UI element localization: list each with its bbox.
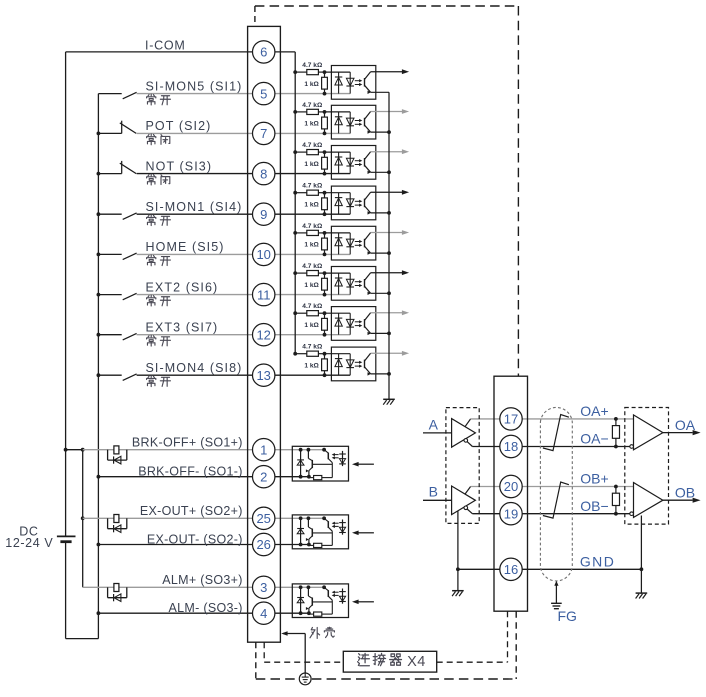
optocoupler U9 box xyxy=(331,186,375,220)
receiver side ground drop xyxy=(640,516,642,594)
pin 25 xyxy=(253,507,275,529)
pin 11 xyxy=(253,283,275,305)
wire OB+ pin20 to receiver xyxy=(522,486,633,488)
opto light arrows xyxy=(355,120,361,122)
switch EXT3 (SI7) stub xyxy=(98,334,121,336)
wire battery - to minus bus xyxy=(66,638,99,640)
switch SI-MON5 (SI1) stub xyxy=(98,93,121,95)
wire case (waike) to earth xyxy=(283,633,305,635)
svg-text:6: 6 xyxy=(260,45,267,60)
svg-text:4.7 kΩ: 4.7 kΩ xyxy=(302,263,323,270)
svg-text:1 kΩ: 1 kΩ xyxy=(304,81,319,88)
signal output arrow pin 13 xyxy=(371,352,403,354)
I-COM internal bus vertical xyxy=(294,52,296,354)
switch POT (SI2) NC contact bar xyxy=(121,121,123,134)
optocoupler U7 box xyxy=(331,105,375,139)
switch SI-MON1 (SI4) NO blade xyxy=(123,213,137,220)
label 常闭 xyxy=(147,174,156,185)
wire BRK-OFF- (SO1-) pin 2 to minus bus xyxy=(98,476,309,478)
pin 12 xyxy=(253,324,275,346)
node + bus corner xyxy=(81,448,85,452)
wire OA+ pin17 to receiver xyxy=(522,418,633,420)
opto phototransistor pin 5 xyxy=(364,78,366,87)
dashed leader left column to label xyxy=(263,642,265,662)
flyback diode at BRK-OFF+ (SO1+) xyxy=(113,456,115,463)
transistor Q2 (darlington output) xyxy=(324,518,328,521)
transistor Q1 (darlington input) xyxy=(307,587,309,596)
wire I-COM from battery + to pin 6 xyxy=(66,51,253,53)
battery - lead xyxy=(65,542,67,639)
twist symbol OA pair xyxy=(543,415,569,451)
ground (driver side) xyxy=(452,590,464,592)
line receiver OB triangle xyxy=(634,483,663,518)
svg-text:SI-MON4 (SI8): SI-MON4 (SI8) xyxy=(146,361,243,375)
opto LED branch 1 xyxy=(338,354,340,376)
opto emitter xyxy=(365,206,371,213)
wire OA- pin18 to receiver xyxy=(522,446,630,448)
shielded cable capsule xyxy=(540,407,572,580)
output optocoupler SO block pins 1/2 xyxy=(292,446,348,481)
node switch bus junction xyxy=(97,333,101,337)
svg-text:9: 9 xyxy=(260,207,267,222)
resistor 4.7k (pin 13 channel) xyxy=(295,353,307,355)
opto LED branch 1 xyxy=(338,193,340,215)
node switch bus junction xyxy=(97,212,101,216)
opto LED branch 2 xyxy=(349,233,351,255)
svg-text:SI-MON1 (SI4): SI-MON1 (SI4) xyxy=(146,200,243,214)
switch common / minus bus vertical xyxy=(97,94,99,639)
resistor 1k (pin 10 channel) xyxy=(324,233,326,238)
svg-text:POT (SI2): POT (SI2) xyxy=(146,119,212,133)
wire EXT2 (SI6) to pin 11 and optocoupler xyxy=(137,294,351,296)
switch POT (SI2) NC blade xyxy=(120,123,136,133)
switch EXT2 (SI6) NO blade xyxy=(123,293,137,300)
node divider bottom pin 12 xyxy=(323,333,327,337)
dashed leader label to right column xyxy=(437,661,508,663)
node bus branch SI9 xyxy=(293,191,297,195)
node emitter chain junction xyxy=(387,291,391,295)
resistor 1k (pin 13 channel) xyxy=(324,354,326,359)
protection diode branch xyxy=(300,518,302,544)
opto input top rail xyxy=(325,151,351,153)
Q1 base lead xyxy=(312,532,332,534)
line driver A triangle xyxy=(452,419,476,448)
node + bus EX-OUT branch xyxy=(81,516,85,520)
signal output arrow pin 8 xyxy=(371,151,403,153)
node divider bottom pin 13 xyxy=(323,373,327,377)
svg-text:EX-OUT+ (SO2+): EX-OUT+ (SO2+) xyxy=(140,504,243,518)
svg-text:BRK-OFF- (SO1-): BRK-OFF- (SO1-) xyxy=(138,465,243,479)
line driver B input wire xyxy=(423,499,452,501)
node emitter chain junction xyxy=(387,332,391,336)
switch SI-MON1 (SI4) stub xyxy=(98,213,121,215)
svg-text:11: 11 xyxy=(257,287,271,302)
wire EX-OUT- (SO2-) pin 26 to minus bus xyxy=(98,544,309,546)
node term resistor bottom xyxy=(614,512,618,516)
opto LED branch 1 xyxy=(338,273,340,295)
node divider top pin 12 xyxy=(323,311,327,315)
switch POT (SI2) stub xyxy=(98,132,121,134)
node minus bus junction xyxy=(97,611,101,615)
twist symbol OB pair xyxy=(543,482,569,518)
svg-text:SI-MON5 (SI1): SI-MON5 (SI1) xyxy=(146,79,243,93)
node divider top pin 9 xyxy=(323,191,327,195)
Q1 base lead xyxy=(312,601,332,603)
svg-text:13: 13 xyxy=(256,368,270,383)
node emitter chain junction xyxy=(387,170,391,174)
pin 26 xyxy=(253,533,275,555)
opto emitter xyxy=(365,286,371,293)
transistor Q2 (darlington output) xyxy=(324,587,328,590)
line driver B triangle xyxy=(452,486,476,515)
opto LED (output block) xyxy=(342,589,344,604)
node bus branch SI11 xyxy=(293,271,297,275)
opto light arrows xyxy=(355,361,361,363)
optocoupler U12 box xyxy=(331,307,375,341)
emitter chain to ground xyxy=(388,92,390,399)
wire NOT (SI3) to pin 8 and optocoupler xyxy=(137,173,351,175)
pin 2 xyxy=(253,466,275,488)
transistor Q1 (darlington input) xyxy=(307,450,309,459)
resistor 1k (pin 9 channel) xyxy=(324,193,326,198)
node term resistor bottom xyxy=(614,445,618,449)
switch HOME (SI5) NO blade xyxy=(123,253,137,260)
opto light arrows xyxy=(355,241,361,243)
switch SI-MON4 (SI8) stub xyxy=(98,374,121,376)
node divider bottom pin 9 xyxy=(323,212,327,216)
opto LED branch 2 xyxy=(349,313,351,335)
opto emitter xyxy=(365,367,371,374)
label 常开 xyxy=(147,215,156,226)
svg-text:OA−: OA− xyxy=(580,430,608,446)
line driver A input wire xyxy=(423,432,452,434)
cable shield to FG xyxy=(554,581,558,586)
flyback diode at EX-OUT+ (SO2+) xyxy=(113,525,115,532)
node bus branch SI7 xyxy=(293,110,297,114)
wire OB- pin19 to receiver xyxy=(522,513,630,515)
node switch bus junction xyxy=(97,132,101,136)
opto phototransistor pin 10 xyxy=(364,239,366,248)
node minus bus junction xyxy=(97,475,101,479)
svg-text:12-24 V: 12-24 V xyxy=(5,536,53,550)
opto light arrows xyxy=(355,200,361,202)
svg-text:EXT2 (SI6): EXT2 (SI6) xyxy=(146,280,219,294)
resistor 4.7k (pin 5 channel) xyxy=(295,71,307,73)
svg-text:4.7 kΩ: 4.7 kΩ xyxy=(302,303,323,310)
opto phototransistor pin 11 xyxy=(364,279,366,288)
pin 5 xyxy=(253,82,275,104)
svg-text:4.7 kΩ: 4.7 kΩ xyxy=(302,142,323,149)
servo-driver dashed border left stub to connector xyxy=(254,6,256,26)
node divider bottom pin 10 xyxy=(323,253,327,257)
resistor 1k (pin 12 channel) xyxy=(324,313,326,318)
wire BRK-OFF+ (SO1+) pin 1 from + bus xyxy=(83,449,324,451)
opto LED branch 1 xyxy=(338,313,340,335)
opto light arrows xyxy=(355,281,361,283)
switch SI-MON4 (SI8) NO blade xyxy=(123,374,137,381)
driver B inverting output bubble xyxy=(464,506,468,510)
svg-text:1 kΩ: 1 kΩ xyxy=(304,282,319,289)
output block top rail nodes xyxy=(299,516,303,520)
node bus branch SI10 xyxy=(293,231,297,235)
label 常开 xyxy=(147,255,156,266)
servo-driver dashed border right upper xyxy=(517,6,519,376)
opto light arrows xyxy=(355,160,361,162)
pin 6 xyxy=(253,41,275,63)
pin 13 xyxy=(253,364,275,386)
svg-text:OB: OB xyxy=(675,485,695,501)
resistor 1k (pin 11 channel) xyxy=(324,273,326,278)
pin 17 xyxy=(500,408,522,430)
driver B non-inverting output xyxy=(465,487,471,495)
output wire OA xyxy=(663,432,693,434)
opto emitter xyxy=(365,125,371,132)
svg-text:4.7 kΩ: 4.7 kΩ xyxy=(302,183,323,190)
switch NOT (SI3) NC blade xyxy=(120,163,136,174)
opto LED branch 2 xyxy=(349,354,351,376)
ground (opto emitters) xyxy=(383,398,395,400)
opto input top rail xyxy=(325,71,351,73)
svg-text:18: 18 xyxy=(504,439,518,454)
signal output arrow pin 5 xyxy=(371,71,403,73)
node GND left junction xyxy=(456,567,460,571)
wire GND pin16 xyxy=(458,568,642,570)
pin 19 xyxy=(500,503,522,525)
svg-text:25: 25 xyxy=(256,511,270,526)
wire EX-OUT+ (SO2+) pin 25 from + bus xyxy=(83,517,324,519)
transistor Q2 (darlington output) xyxy=(324,450,328,453)
receiver OA inverting input bubble xyxy=(630,445,634,449)
opto phototransistor pin 8 xyxy=(364,158,366,167)
opto LED branch 2 xyxy=(349,72,351,94)
switch SI-MON5 (SI1) NO blade xyxy=(123,92,137,99)
svg-text:X4: X4 xyxy=(407,654,426,670)
label 常闭 xyxy=(147,134,156,145)
svg-text:8: 8 xyxy=(260,166,267,181)
dashed box around line drivers xyxy=(446,408,479,524)
label 常开 xyxy=(147,335,156,346)
svg-text:OA+: OA+ xyxy=(580,403,608,419)
termination resistor pins 20/19 xyxy=(615,487,617,494)
opto LED (output block) xyxy=(342,520,344,535)
signal output arrow pin 12 xyxy=(371,312,403,314)
pin 9 xyxy=(253,203,275,225)
node divider bottom pin 7 xyxy=(323,132,327,136)
servo-driver dashed border bottom xyxy=(312,678,516,680)
opto emitter xyxy=(365,246,371,253)
output optocoupler SO block pins 25/26 xyxy=(292,515,348,549)
resistor 4.7k (pin 7 channel) xyxy=(295,111,307,113)
output block top rail nodes xyxy=(299,448,303,452)
svg-text:NOT (SI3): NOT (SI3) xyxy=(146,159,213,173)
wire ALM- (SO3-) pin 4 to minus bus xyxy=(98,612,309,614)
opto LED branch 2 xyxy=(349,152,351,174)
resistor 1k (pin 5 channel) xyxy=(324,72,326,77)
svg-text:16: 16 xyxy=(504,562,518,577)
resistor 4.7k (pin 11 channel) xyxy=(295,272,307,274)
opto emitter xyxy=(365,165,371,172)
node switch bus junction xyxy=(97,172,101,176)
external drive arrow xyxy=(358,463,374,465)
output block bottom rail nodes xyxy=(299,475,303,479)
battery DC 12-24V xyxy=(57,535,76,537)
dashed box around line receivers xyxy=(625,408,669,525)
svg-text:A: A xyxy=(429,416,439,432)
termination resistor pins 17/18 xyxy=(615,419,617,426)
driver A inverting output bubble xyxy=(464,439,468,443)
svg-text:4.7 kΩ: 4.7 kΩ xyxy=(302,223,323,230)
opto phototransistor pin 9 xyxy=(364,199,366,208)
driver side ground drop xyxy=(457,511,459,591)
node emitter chain junction xyxy=(387,211,391,215)
svg-text:2: 2 xyxy=(260,469,267,484)
svg-text:4.7 kΩ: 4.7 kΩ xyxy=(302,102,323,109)
opto light arrows xyxy=(355,80,361,82)
opto light arrows (output) xyxy=(334,454,339,456)
node divider top pin 8 xyxy=(323,150,327,154)
wire HOME (SI5) to pin 10 and optocoupler xyxy=(137,253,351,255)
opto light arrows xyxy=(355,321,361,323)
protection diode branch xyxy=(300,587,302,613)
node divider top pin 13 xyxy=(323,352,327,356)
svg-text:HOME (SI5): HOME (SI5) xyxy=(146,240,225,254)
svg-text:B: B xyxy=(429,484,438,500)
svg-text:7: 7 xyxy=(260,126,267,141)
node divider top pin 11 xyxy=(323,271,327,275)
pin 7 xyxy=(253,122,275,144)
node divider top pin 10 xyxy=(323,231,327,235)
resistor 4.7k (pin 12 channel) xyxy=(295,312,307,314)
servo-driver dashed border top xyxy=(255,5,519,7)
optocoupler U11 box xyxy=(331,267,375,301)
pin 18 xyxy=(500,435,522,457)
node divider top pin 5 xyxy=(323,70,327,74)
signal output arrow pin 9 xyxy=(371,191,403,193)
pin 10 xyxy=(253,243,275,265)
servo-driver dashed border right lower xyxy=(515,611,517,679)
opto LED branch 2 xyxy=(349,193,351,215)
wire SI-MON5 (SI1) to pin 5 and optocoupler xyxy=(137,93,351,95)
resistor 1k (pin 8 channel) xyxy=(324,152,326,157)
wire EXT3 (SI7) to pin 12 and optocoupler xyxy=(137,334,351,336)
relay load symbol at BRK-OFF+ (SO1+) xyxy=(107,450,109,460)
node term resistor top xyxy=(614,485,618,489)
node bus branch SI8 xyxy=(293,150,297,154)
node battery + branch xyxy=(64,448,68,452)
svg-text:17: 17 xyxy=(504,412,518,427)
svg-text:GND: GND xyxy=(580,554,615,570)
opto emitter xyxy=(365,85,371,92)
wire + distribution bus to outputs xyxy=(66,449,83,451)
svg-text:4.7 kΩ: 4.7 kΩ xyxy=(302,344,323,351)
opto input top rail xyxy=(325,312,351,314)
wire pin6 to internal bus xyxy=(275,51,295,53)
svg-text:OB−: OB− xyxy=(580,498,608,514)
opto phototransistor pin 7 xyxy=(364,118,366,127)
optocoupler U10 box xyxy=(331,226,375,260)
connector X4 left column body xyxy=(248,26,281,642)
svg-text:BRK-OFF+ (SO1+): BRK-OFF+ (SO1+) xyxy=(132,436,243,450)
svg-text:1 kΩ: 1 kΩ xyxy=(304,363,319,370)
svg-text:ALM+ (SO3+): ALM+ (SO3+) xyxy=(162,573,242,587)
signal output arrow pin 11 xyxy=(371,272,403,274)
node term resistor top xyxy=(614,417,618,421)
opto input top rail xyxy=(325,353,351,355)
opto LED (output block) xyxy=(342,451,344,466)
Q1 base lead xyxy=(312,463,332,465)
svg-text:ALM- (SO3-): ALM- (SO3-) xyxy=(169,601,243,615)
servo-driver dashed border bottom-left stub xyxy=(255,642,257,679)
opto LED branch 2 xyxy=(349,112,351,133)
opto light arrows (output) xyxy=(334,522,339,524)
label 常开 xyxy=(147,295,156,306)
output block top rail nodes xyxy=(299,585,303,589)
output wire OB xyxy=(663,499,693,501)
pin 3 xyxy=(253,576,275,598)
opto input top rail xyxy=(325,272,351,274)
opto LED branch 1 xyxy=(338,112,340,133)
base-emitter resistor xyxy=(314,543,322,547)
node bus branch SI13 xyxy=(293,352,297,356)
switch NOT (SI3) NC contact bar xyxy=(121,161,123,174)
node bus branch SI12 xyxy=(293,311,297,315)
transistor Q1 (darlington input) xyxy=(307,518,309,527)
receiver OB inverting input bubble xyxy=(630,512,634,516)
label box lianjieqi X4 xyxy=(343,651,436,672)
opto LED branch 1 xyxy=(338,72,340,94)
svg-text:3: 3 xyxy=(260,580,267,595)
external drive arrow xyxy=(358,532,374,534)
battery + bus vertical xyxy=(65,52,67,537)
switch NOT (SI3) stub xyxy=(98,173,121,175)
opto LED branch 1 xyxy=(338,233,340,255)
opto LED branch 2 xyxy=(349,273,351,295)
wire POT (SI2) to pin 7 and optocoupler xyxy=(137,132,351,134)
resistor 4.7k (pin 10 channel) xyxy=(295,232,307,234)
resistor 4.7k (pin 9 channel) xyxy=(295,192,307,194)
optocoupler U8 box xyxy=(331,146,375,180)
resistor 4.7k (pin 8 channel) xyxy=(295,151,307,153)
relay load symbol at EX-OUT+ (SO2+) xyxy=(107,518,109,528)
svg-text:4: 4 xyxy=(260,606,267,621)
external drive arrow xyxy=(358,601,374,603)
node divider bottom pin 8 xyxy=(323,172,327,176)
opto LED branch 1 xyxy=(338,152,340,174)
label 常开 xyxy=(147,94,156,105)
opto input top rail xyxy=(325,111,351,113)
pin 20 xyxy=(500,475,522,497)
svg-text:FG: FG xyxy=(558,608,577,624)
svg-text:1 kΩ: 1 kΩ xyxy=(304,121,319,128)
node switch bus junction xyxy=(97,253,101,257)
opto light arrows (output) xyxy=(334,591,339,593)
label 常开 xyxy=(147,376,156,387)
svg-text:1 kΩ: 1 kΩ xyxy=(304,322,319,329)
opto phototransistor pin 13 xyxy=(364,360,366,369)
node divider bottom pin 5 xyxy=(323,92,327,96)
opto phototransistor pin 12 xyxy=(364,319,366,328)
output block bottom rail nodes xyxy=(299,611,303,615)
optocoupler U5 box xyxy=(331,66,375,100)
signal output arrow pin 7 xyxy=(371,111,403,113)
output optocoupler SO block pins 3/4 xyxy=(292,584,348,618)
svg-text:OA: OA xyxy=(675,417,696,433)
wire SI-MON4 (SI8) to pin 13 and optocoupler xyxy=(137,374,351,376)
svg-text:20: 20 xyxy=(504,479,518,494)
switch EXT2 (SI6) stub xyxy=(98,294,121,296)
label waike (case) xyxy=(310,627,320,638)
pin 16 xyxy=(500,558,522,580)
